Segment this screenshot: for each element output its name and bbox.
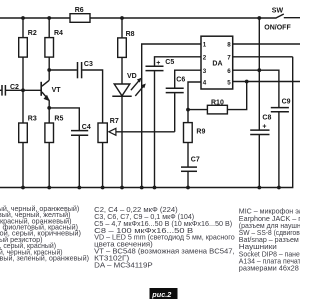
wire pin7 to ground corner bbox=[233, 56, 293, 58]
svg-text:C2: C2 bbox=[10, 84, 19, 91]
capacitor C2 bbox=[2, 85, 5, 96]
node ground LED bbox=[120, 186, 124, 190]
resistor R4 bbox=[45, 38, 54, 58]
svg-text:R8: R8 bbox=[126, 31, 135, 38]
svg-text:DA – MC34119P: DA – MC34119P bbox=[94, 261, 153, 270]
wire C7 to ground bbox=[187, 172, 189, 188]
svg-text:R3: R3 bbox=[28, 116, 37, 123]
node base C2 bbox=[21, 88, 25, 92]
node ground C5 bbox=[153, 186, 157, 190]
capacitor C4 bbox=[71, 131, 88, 136]
svg-text:C6: C6 bbox=[176, 77, 185, 84]
svg-text:8: 8 bbox=[227, 42, 231, 49]
wire ground rail bbox=[0, 57, 293, 188]
svg-text:5: 5 bbox=[227, 79, 231, 86]
svg-text:R7: R7 bbox=[110, 118, 119, 125]
wire C3 row from collector node bbox=[49, 69, 77, 71]
resistor R8 bbox=[118, 38, 127, 58]
wire R9 node to R10 bbox=[188, 109, 207, 111]
node pin6 supply bbox=[257, 68, 261, 72]
wire pin3 to C6 bbox=[175, 70, 201, 87]
wire C9 to ground bbox=[278, 112, 280, 187]
node top rail R4 bbox=[47, 16, 51, 20]
capacitor C7 bbox=[181, 167, 197, 171]
wire C6 bottom down to wiper row bbox=[174, 93, 176, 132]
svg-text:+: + bbox=[262, 123, 266, 130]
wire C8 to ground bbox=[258, 135, 260, 188]
resistor R7 wiper arrow bbox=[109, 128, 116, 135]
wire pin5 to right edge bbox=[233, 81, 300, 83]
figure tag ric.2 bbox=[150, 288, 178, 299]
wire C2 to base node bbox=[0, 89, 1, 91]
svg-text:C5: C5 bbox=[165, 59, 174, 66]
transistor VT bbox=[40, 82, 42, 96]
capacitor C6 bbox=[166, 88, 184, 92]
wire C5 to ground bbox=[154, 71, 156, 187]
wire R7 wiper to C6 bottom bbox=[116, 131, 175, 133]
svg-text:VD: VD bbox=[127, 73, 137, 80]
svg-text:4: 4 bbox=[203, 79, 207, 86]
node collector C3 bbox=[47, 68, 51, 72]
svg-text:R4: R4 bbox=[54, 30, 63, 37]
node ground R5 bbox=[47, 186, 51, 190]
svg-text:VT: VT bbox=[52, 87, 62, 94]
svg-text:7: 7 bbox=[227, 54, 231, 61]
wire R7 to ground bbox=[102, 143, 104, 188]
node top rail SW bbox=[257, 16, 261, 20]
capacitor C8 bbox=[250, 130, 269, 134]
svg-text:C8: C8 bbox=[262, 114, 271, 121]
wire pin8 to right edge bbox=[233, 43, 300, 45]
LED VD emission arrows bbox=[131, 80, 140, 90]
wire SW column to C8 bbox=[258, 18, 260, 130]
svg-text:SW: SW bbox=[272, 7, 284, 14]
svg-text:C7: C7 bbox=[191, 157, 200, 164]
node top rail R2 bbox=[21, 16, 25, 20]
svg-text:R10: R10 bbox=[211, 99, 224, 106]
wire C4 to ground bbox=[78, 136, 80, 188]
wire emitter node to C4 bbox=[49, 108, 79, 130]
svg-text:C3: C3 bbox=[84, 61, 93, 68]
svg-text:R9: R9 bbox=[196, 128, 205, 135]
node ground C8 bbox=[257, 186, 261, 190]
switch SW blade bbox=[276, 14, 283, 18]
wire pin6 to C9 column bbox=[233, 70, 279, 107]
wire top supply rail bbox=[0, 17, 277, 19]
svg-text:ON/OFF: ON/OFF bbox=[264, 25, 291, 32]
wire R4/VT/R5 column bbox=[48, 18, 50, 80]
node ground pin1 bbox=[140, 186, 144, 190]
wire R8/LED column bbox=[121, 18, 123, 84]
wire pin4 to R9 node bbox=[188, 82, 201, 123]
resistor R9 bbox=[184, 123, 193, 143]
node ground C7 bbox=[186, 186, 190, 190]
svg-text:+: + bbox=[156, 60, 160, 67]
svg-text:R5: R5 bbox=[54, 116, 63, 123]
svg-text:R6: R6 bbox=[75, 7, 84, 14]
resistor R7 trimmer body bbox=[98, 123, 107, 143]
svg-text:рис.2: рис.2 bbox=[151, 290, 171, 299]
wire R9 to C7 bbox=[187, 143, 189, 167]
svg-text:вый, зеленый, оранжевый): вый, зеленый, оранжевый) bbox=[0, 254, 89, 263]
op-amp U1 / IC DA body bbox=[201, 36, 233, 89]
resistor R6 bbox=[70, 14, 90, 23]
node top rail R8 bbox=[120, 16, 124, 20]
capacitor C5 bbox=[146, 66, 164, 70]
node ground R7 bbox=[101, 186, 105, 190]
svg-text:R2: R2 bbox=[28, 30, 37, 37]
capacitor C3 bbox=[78, 62, 82, 78]
node emitter R5 C4 bbox=[47, 106, 51, 110]
wire pin1 to ground column bbox=[142, 44, 201, 188]
node pin4 R9 R10 bbox=[186, 108, 190, 112]
LED VD triangle bbox=[114, 84, 130, 96]
svg-text:C4: C4 bbox=[82, 124, 91, 131]
resistor R2 bbox=[19, 38, 28, 58]
svg-text:2: 2 bbox=[203, 54, 207, 61]
node ground C9 bbox=[277, 186, 281, 190]
node pin5 R10 bbox=[245, 80, 249, 84]
resistor R5 bbox=[45, 123, 54, 143]
svg-text:C9: C9 bbox=[282, 98, 291, 105]
resistor R10 bbox=[207, 105, 227, 114]
svg-text:размерами 46x28: размерами 46x28 bbox=[239, 264, 299, 273]
wire C3 to R7 bbox=[82, 70, 102, 123]
capacitor C9 bbox=[271, 108, 289, 112]
resistor R3 bbox=[19, 123, 28, 143]
svg-text:3: 3 bbox=[203, 68, 207, 75]
svg-text:DA: DA bbox=[212, 60, 222, 67]
wire pin2 to C5 bbox=[155, 57, 202, 66]
svg-text:6: 6 bbox=[227, 68, 231, 75]
node ground R3 bbox=[21, 186, 25, 190]
svg-text:1: 1 bbox=[203, 42, 207, 49]
node ground C4 bbox=[77, 186, 81, 190]
wire R10 to pin5 bbox=[227, 82, 246, 110]
wire R2/R3 column bbox=[22, 18, 24, 188]
wire top rail after switch bbox=[284, 17, 300, 19]
